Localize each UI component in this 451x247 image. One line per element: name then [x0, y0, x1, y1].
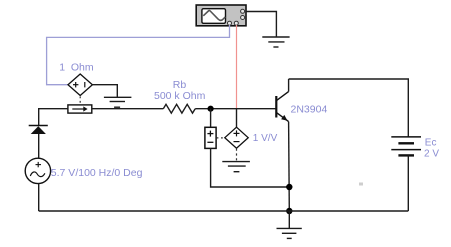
resistor Rb 500k	[163, 104, 195, 113]
wire left vertical to diode	[38, 108, 40, 125]
wire ac source to bottom rail	[38, 184, 40, 211]
oscilloscope XSC1	[196, 5, 246, 26]
ground (below vcvs)	[222, 162, 250, 172]
svg-text:2N3904: 2N3904	[291, 104, 328, 116]
current probe (arrow box)	[68, 105, 92, 113]
svg-text:2 V: 2 V	[424, 148, 439, 159]
svg-text:1 Ohm: 1 Ohm	[59, 61, 94, 73]
dashed stub vcvs to ground	[236, 149, 238, 162]
battery Ec 2V	[391, 137, 421, 156]
vcvs V1 (diamond 1 V/V)	[225, 127, 248, 148]
ccvs V2 (diamond 1 Ohm)	[68, 74, 92, 96]
label value 500 k Ohm	[154, 90, 206, 102]
svg-text:500 k Ohm: 500 k Ohm	[154, 90, 206, 102]
diode D1	[29, 126, 48, 135]
node junction emitter-probe	[286, 184, 292, 190]
label 2N3904	[291, 104, 328, 116]
wire current probe to resistor Rb	[92, 108, 164, 110]
dashed control link probe to vcvs	[217, 137, 225, 139]
node junction emitter-bottom rail	[286, 208, 292, 214]
voltage probe (plus minus box)	[205, 127, 216, 148]
label value 5.7 V/100 Hz/0 Deg	[51, 167, 143, 179]
label value 1 V/V	[253, 133, 278, 144]
wire scope channel A (blue) to CCVS	[47, 25, 230, 85]
wire battery bottom to bottom rail	[407, 155, 409, 211]
wire bottom node to ground	[288, 211, 290, 228]
svg-text:Ec: Ec	[425, 138, 437, 149]
ac source V3	[25, 158, 50, 183]
dashed control link ccvs to current probe	[79, 97, 81, 105]
wire scope right terminal to ground	[246, 12, 276, 38]
wire emitter down	[288, 122, 291, 211]
stray mark	[359, 183, 363, 186]
svg-text:5.7 V/100 Hz/0 Deg: 5.7 V/100 Hz/0 Deg	[51, 167, 143, 179]
wire diode to source	[38, 134, 40, 158]
label Rb	[173, 79, 187, 91]
label value 1 Ohm	[59, 61, 94, 73]
svg-text:1 V/V: 1 V/V	[253, 133, 278, 144]
wire resistor to transistor base	[195, 108, 276, 110]
wire left vertical top corner to current probe	[39, 108, 68, 110]
transistor Q1 2N3904	[276, 92, 288, 122]
wire collector top rail to battery	[289, 79, 409, 137]
label value 2 V	[424, 148, 439, 159]
wire scope channel B (red) to node	[236, 25, 238, 109]
ground (scope)	[262, 37, 289, 47]
label Ec	[425, 138, 437, 149]
wire node to voltage probe	[210, 109, 212, 128]
wire node to vcvs top	[236, 109, 238, 128]
ground (near ccvs)	[104, 97, 131, 107]
wire ccvs to ground	[92, 85, 117, 98]
wire bottom rail	[39, 210, 409, 212]
ground (bottom)	[277, 228, 302, 238]
wire voltage probe to emitter node	[211, 148, 290, 187]
node junction at probe branch	[208, 106, 214, 112]
wire collector up	[288, 79, 290, 92]
